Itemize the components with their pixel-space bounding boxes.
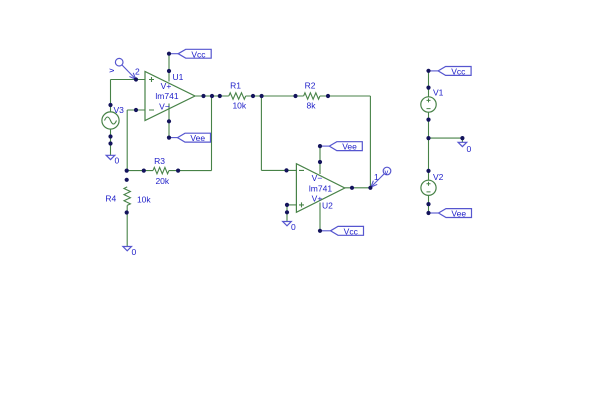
- svg-text:10k: 10k: [232, 101, 246, 111]
- junction U2 output node / probe 1 tip: [368, 186, 372, 190]
- junction at V3 ground: [108, 141, 112, 145]
- junction at Vcc flag U2: [318, 229, 322, 233]
- svg-text:v: v: [107, 69, 116, 73]
- ground 0 at U2 + input: [283, 222, 296, 233]
- svg-text:U2: U2: [322, 201, 333, 211]
- wire V3 top: [110, 80, 112, 113]
- voltage source V1 (DC): [421, 88, 444, 113]
- junction at right ground: [460, 136, 464, 140]
- svg-text:Vcc: Vcc: [451, 67, 466, 77]
- wire U2 V+ supply: [319, 203, 321, 231]
- svg-text:V1: V1: [433, 88, 444, 98]
- wire U2 V- supply: [319, 146, 321, 174]
- wire V2 to Vee rail: [428, 195, 430, 213]
- svg-text:lm741: lm741: [309, 184, 332, 194]
- svg-text:V−: V−: [312, 173, 323, 183]
- svg-text:R4: R4: [105, 194, 116, 204]
- junction R3 left node: [125, 169, 129, 173]
- svg-text:1: 1: [374, 172, 379, 182]
- wire V1 to V2: [428, 112, 430, 180]
- wire U2 noninverting input to ground: [286, 205, 288, 222]
- svg-text:0: 0: [132, 247, 137, 257]
- junction U1 output pin: [201, 94, 205, 98]
- wire U1 V- supply: [168, 104, 170, 138]
- svg-text:lm741: lm741: [155, 91, 178, 101]
- ground 0 at supply midpoint: [458, 142, 471, 154]
- svg-text:10k: 10k: [137, 194, 151, 204]
- ground 0 below V3: [106, 155, 119, 165]
- power flag Vee at U1 V-: [169, 133, 211, 143]
- svg-text:Vee: Vee: [190, 133, 205, 143]
- power flag Vee at U2 V-: [320, 142, 362, 152]
- junction R1 right pin: [251, 94, 255, 98]
- resistor R2: [304, 81, 320, 111]
- wire Vcc rail to V1: [428, 71, 430, 97]
- junction V2 top pin: [426, 169, 430, 173]
- wire U2 output: [345, 187, 371, 189]
- power flag Vcc at U1 V+: [169, 49, 211, 59]
- ground 0 below R4: [123, 247, 137, 258]
- junction R3 left pin: [142, 169, 146, 173]
- wire U1 noninverting input: [111, 79, 146, 81]
- junction U1 - input pin: [134, 108, 138, 112]
- junction U2 - input pin: [284, 168, 288, 172]
- junction node A to U2: [260, 94, 264, 98]
- wire supply midpoint to ground: [429, 137, 463, 139]
- svg-text:R1: R1: [230, 81, 241, 91]
- wire U1 output to R1: [195, 95, 229, 97]
- junction R3 right pin: [176, 169, 180, 173]
- svg-text:Vee: Vee: [342, 142, 357, 152]
- wire R2 feedback down to U2 output: [369, 96, 371, 188]
- svg-text:0: 0: [115, 156, 120, 166]
- power flag Vee at V2: [429, 209, 472, 219]
- junction V2 bottom pin: [426, 202, 430, 206]
- voltage source V3 (sine): [102, 105, 124, 129]
- svg-text:Vcc: Vcc: [344, 226, 359, 236]
- wire R4 bottom to ground: [126, 205, 128, 246]
- junction V3 top pin: [108, 103, 112, 107]
- svg-text:V+: V+: [161, 81, 172, 91]
- junction R2 left pin: [293, 94, 297, 98]
- junction U2 ground wire: [285, 210, 289, 214]
- resistor R4: [105, 187, 151, 206]
- junction U2 + input pin: [285, 203, 289, 207]
- op-amp U1: [145, 72, 195, 121]
- power flag Vcc at V1: [429, 67, 472, 77]
- resistor R3: [153, 156, 170, 186]
- junction U1 + input pin / probe 2 tip: [134, 77, 138, 81]
- wire R3 left: [127, 170, 153, 172]
- junction supply midpoint: [426, 136, 430, 140]
- voltage source V2 (DC): [421, 172, 444, 195]
- op-amp U2: [296, 164, 344, 213]
- svg-text:V2: V2: [433, 172, 444, 182]
- svg-text:Vcc: Vcc: [191, 49, 206, 59]
- junction feedback node: [210, 94, 214, 98]
- wire U2 inverting input: [261, 169, 296, 171]
- svg-text:2: 2: [135, 67, 140, 77]
- junction U1 V+ pin: [167, 69, 171, 73]
- junction at Vee flag U2: [318, 144, 322, 148]
- junction U1 V- pin: [167, 119, 171, 123]
- wire U1 inverting input: [127, 109, 145, 111]
- junction R2 right pin: [326, 94, 330, 98]
- wire R1 to R2 node: [246, 95, 304, 97]
- svg-text:Vee: Vee: [451, 209, 466, 219]
- resistor R1: [229, 81, 247, 111]
- svg-text:20k: 20k: [155, 176, 169, 186]
- svg-text:U1: U1: [173, 72, 184, 82]
- wire node down to U2 inverting input: [260, 96, 262, 170]
- wire V3 bottom to ground: [110, 129, 112, 155]
- wire U1 feedback down: [211, 96, 213, 171]
- junction V1 bottom pin: [426, 118, 430, 122]
- svg-text:0: 0: [291, 222, 296, 232]
- wire ground stub: [461, 138, 463, 142]
- wire U2 noninverting input: [287, 204, 296, 206]
- svg-text:R3: R3: [154, 156, 165, 166]
- svg-text:0: 0: [467, 144, 472, 154]
- junction R4 top pin: [125, 178, 129, 182]
- junction at Vcc flag right: [426, 69, 430, 73]
- svg-text:V−: V−: [159, 102, 170, 112]
- junction at Vee flag U1: [167, 136, 171, 140]
- junction at Vee flag right: [426, 211, 430, 215]
- voltage probe marker node 2: [107, 58, 140, 79]
- junction R4 bottom pin: [125, 210, 129, 214]
- junction V3 bottom pin: [108, 134, 112, 138]
- wire R3 right: [169, 170, 212, 172]
- junction V1 top pin: [426, 86, 430, 90]
- svg-text:8k: 8k: [307, 101, 317, 111]
- wire U1 V+ supply: [168, 54, 170, 82]
- junction U2 V- pin: [318, 160, 322, 164]
- power flag Vcc at U2 V+: [320, 226, 364, 236]
- svg-text:R2: R2: [305, 81, 316, 91]
- svg-text:V3: V3: [114, 105, 125, 115]
- svg-text:v: v: [385, 167, 389, 176]
- wire R2 right: [320, 95, 371, 97]
- wire inverting input to R3 node: [126, 110, 128, 171]
- svg-text:V+: V+: [312, 194, 323, 204]
- junction at Vcc flag U1: [167, 52, 171, 56]
- junction U2 output pin: [350, 186, 354, 190]
- junction R1 left pin: [218, 94, 222, 98]
- voltage probe marker node 1: [371, 167, 391, 187]
